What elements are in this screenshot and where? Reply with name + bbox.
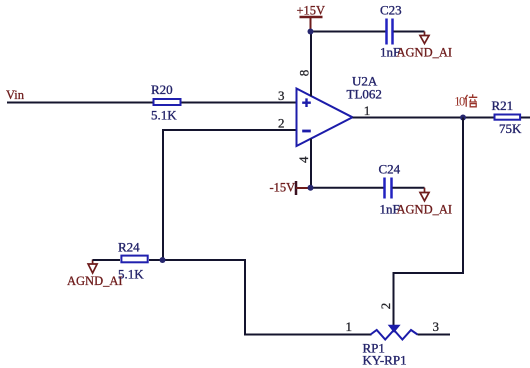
pin number 3: [278, 88, 285, 103]
potentiometer RP1: [363, 325, 418, 368]
svg-text:+15V: +15V: [297, 4, 326, 18]
svg-text:10: 10: [454, 94, 465, 108]
svg-text:1: 1: [364, 103, 371, 118]
junction at output node: [460, 115, 466, 121]
svg-text:2: 2: [378, 303, 393, 310]
svg-text:5.1K: 5.1K: [118, 267, 144, 282]
ground AGND_AI (middle): [397, 188, 453, 217]
wire C24 to ground: [393, 187, 425, 189]
pin number 8: [296, 70, 311, 77]
svg-text:TL062: TL062: [347, 87, 382, 102]
wire output node to RP1 wiper: [394, 118, 464, 326]
pin number 1: [364, 103, 371, 118]
svg-text:AGND_AI: AGND_AI: [397, 203, 453, 217]
svg-text:Vin: Vin: [6, 88, 25, 102]
svg-text:C24: C24: [379, 162, 401, 177]
svg-text:8: 8: [296, 70, 311, 77]
resistor R21: [492, 98, 523, 136]
wire op-amp output: [353, 117, 495, 119]
pin number 4: [296, 156, 311, 163]
wire R24 to corner: [149, 260, 372, 335]
resistor R20: [151, 82, 181, 123]
wire pin 2 to feedback: [163, 130, 296, 260]
svg-text:75K: 75K: [499, 121, 522, 136]
svg-text:4: 4: [296, 156, 311, 163]
svg-text:KY-RP1: KY-RP1: [363, 353, 407, 368]
svg-text:1: 1: [346, 319, 353, 334]
capacitor C24: [379, 162, 401, 217]
power -15V: [270, 181, 309, 196]
wire +15V rail to C23: [311, 31, 386, 33]
pin number 3 (RP1): [433, 319, 440, 334]
pin number 1 (RP1): [346, 319, 353, 334]
op-amp U2A: [297, 74, 382, 147]
wire pin 4: [310, 139, 312, 188]
svg-text:5.1K: 5.1K: [151, 108, 177, 123]
svg-text:R24: R24: [118, 240, 140, 255]
svg-text:R20: R20: [151, 82, 173, 97]
svg-text:AGND_AI: AGND_AI: [397, 46, 453, 60]
node Vin label: [6, 88, 25, 102]
pin number 2: [278, 116, 285, 131]
wire -15V rail to C24: [308, 187, 384, 189]
wire C23 to ground: [394, 31, 425, 33]
svg-text:2: 2: [278, 116, 285, 131]
svg-text:R21: R21: [492, 98, 514, 113]
junction feedback / R24: [160, 257, 166, 263]
svg-text:-15V: -15V: [270, 181, 296, 195]
wire ground to R24: [93, 259, 120, 261]
wire Vin to R20 and pin 3: [7, 102, 296, 104]
resistor R24: [118, 240, 148, 282]
wire pin 8: [310, 32, 312, 97]
svg-text:C23: C23: [380, 3, 402, 18]
svg-text:3: 3: [433, 319, 440, 334]
wire R21 to edge: [521, 117, 530, 119]
junction on +15V rail: [308, 29, 314, 35]
junction on -15V rail: [308, 185, 314, 191]
svg-text:3: 3: [278, 88, 285, 103]
node 10x gain label: [454, 94, 477, 108]
ground AGND_AI (left): [67, 260, 123, 289]
ground AGND_AI (top): [397, 32, 453, 60]
svg-text:AGND_AI: AGND_AI: [67, 274, 123, 288]
power +15V: [297, 4, 326, 32]
wire RP1 right: [418, 334, 451, 336]
capacitor C23: [380, 3, 402, 60]
pin number 2 (RP1): [378, 303, 393, 310]
